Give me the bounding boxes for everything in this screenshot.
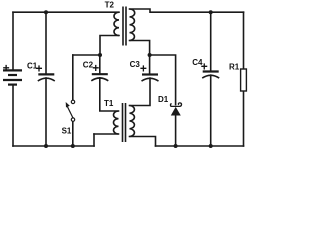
svg-text:+: + <box>201 59 208 73</box>
svg-text:T2: T2 <box>105 1 115 10</box>
svg-text:D1: D1 <box>158 95 169 104</box>
svg-text:T1: T1 <box>104 99 114 108</box>
svg-text:+: + <box>35 62 42 76</box>
svg-text:S1: S1 <box>62 127 72 136</box>
svg-text:+: + <box>140 62 147 76</box>
svg-text:+: + <box>92 61 99 75</box>
svg-text:+: + <box>3 61 10 75</box>
svg-text:C3: C3 <box>130 60 141 69</box>
svg-text:R1: R1 <box>229 62 240 71</box>
